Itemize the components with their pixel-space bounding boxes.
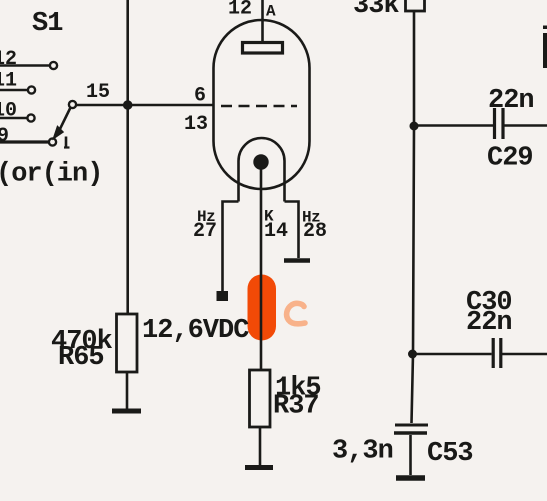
switch S1 contact 11	[0, 86, 35, 93]
wire C29 to edge	[505, 124, 547, 127]
tube anode plate	[243, 43, 283, 54]
svg-text:11: 11	[0, 70, 17, 93]
resistor 33k partial	[406, 0, 425, 11]
tube cathode dot	[254, 155, 268, 169]
capacitor C29	[495, 108, 504, 139]
svg-text:27: 27	[193, 220, 217, 243]
wire R37 to ground	[259, 427, 262, 465]
svg-text:A: A	[266, 3, 276, 21]
heater leg pin 27	[217, 202, 239, 301]
svg-text:13: 13	[184, 113, 208, 136]
svg-text:12: 12	[0, 48, 17, 71]
ground R37	[245, 465, 273, 470]
tube grid dashed electrode	[221, 105, 297, 108]
tube V1 envelope	[214, 20, 310, 189]
ground heater	[284, 258, 310, 263]
wire main left vertical bus	[126, 0, 129, 314]
svg-text:12: 12	[228, 0, 252, 21]
wire right vertical bus	[412, 11, 415, 423]
switch S1 contact 10	[0, 114, 35, 121]
connector stub right edge	[543, 26, 547, 69]
svg-text:9: 9	[0, 125, 9, 148]
highlight annotation orange capsule	[248, 275, 277, 341]
tube anode wire pin 12/A	[261, 0, 264, 42]
heater leg pin 28	[285, 202, 299, 259]
wire R65 to ground	[126, 372, 129, 409]
svg-text:R37: R37	[273, 392, 319, 422]
wire C53 to ground	[409, 435, 412, 475]
svg-text:14: 14	[264, 220, 288, 243]
node junction C29	[410, 122, 418, 130]
wire pole to grid	[77, 104, 213, 107]
wire cathode K down	[260, 169, 263, 370]
svg-text:R65: R65	[58, 343, 104, 373]
svg-text:22n: 22n	[488, 86, 534, 116]
switch S1 contact 12	[0, 62, 57, 69]
capacitor C53	[394, 425, 428, 433]
wire C30 to edge	[502, 353, 547, 356]
handwritten annotation c	[287, 303, 305, 323]
svg-text:28: 28	[303, 220, 327, 243]
ground C53	[396, 475, 425, 481]
svg-text:33k: 33k	[353, 0, 399, 21]
switch S1 contact 9	[0, 138, 56, 145]
svg-text:C53: C53	[427, 439, 473, 469]
svg-text:C29: C29	[487, 144, 533, 174]
node junction grid bus	[123, 101, 132, 110]
switch S1 pole and wiper arm	[54, 101, 77, 139]
svg-text:15: 15	[86, 81, 110, 104]
switch position tick mark 1	[64, 137, 70, 148]
wire to C30	[413, 353, 492, 356]
svg-text:12,6VDC: 12,6VDC	[142, 316, 249, 346]
wire to C29	[414, 124, 493, 127]
svg-text:(or(in): (or(in)	[0, 160, 102, 190]
capacitor C30	[493, 338, 501, 368]
resistor R37	[250, 370, 271, 427]
svg-text:S1: S1	[32, 9, 63, 39]
svg-text:3,3n: 3,3n	[332, 437, 393, 467]
node junction C30	[409, 350, 417, 358]
svg-text:10: 10	[0, 100, 17, 123]
resistor R65	[117, 314, 138, 372]
ground R65	[112, 409, 141, 414]
svg-text:6: 6	[194, 85, 206, 108]
svg-text:22n: 22n	[466, 308, 512, 338]
tube cathode dome	[239, 138, 285, 202]
